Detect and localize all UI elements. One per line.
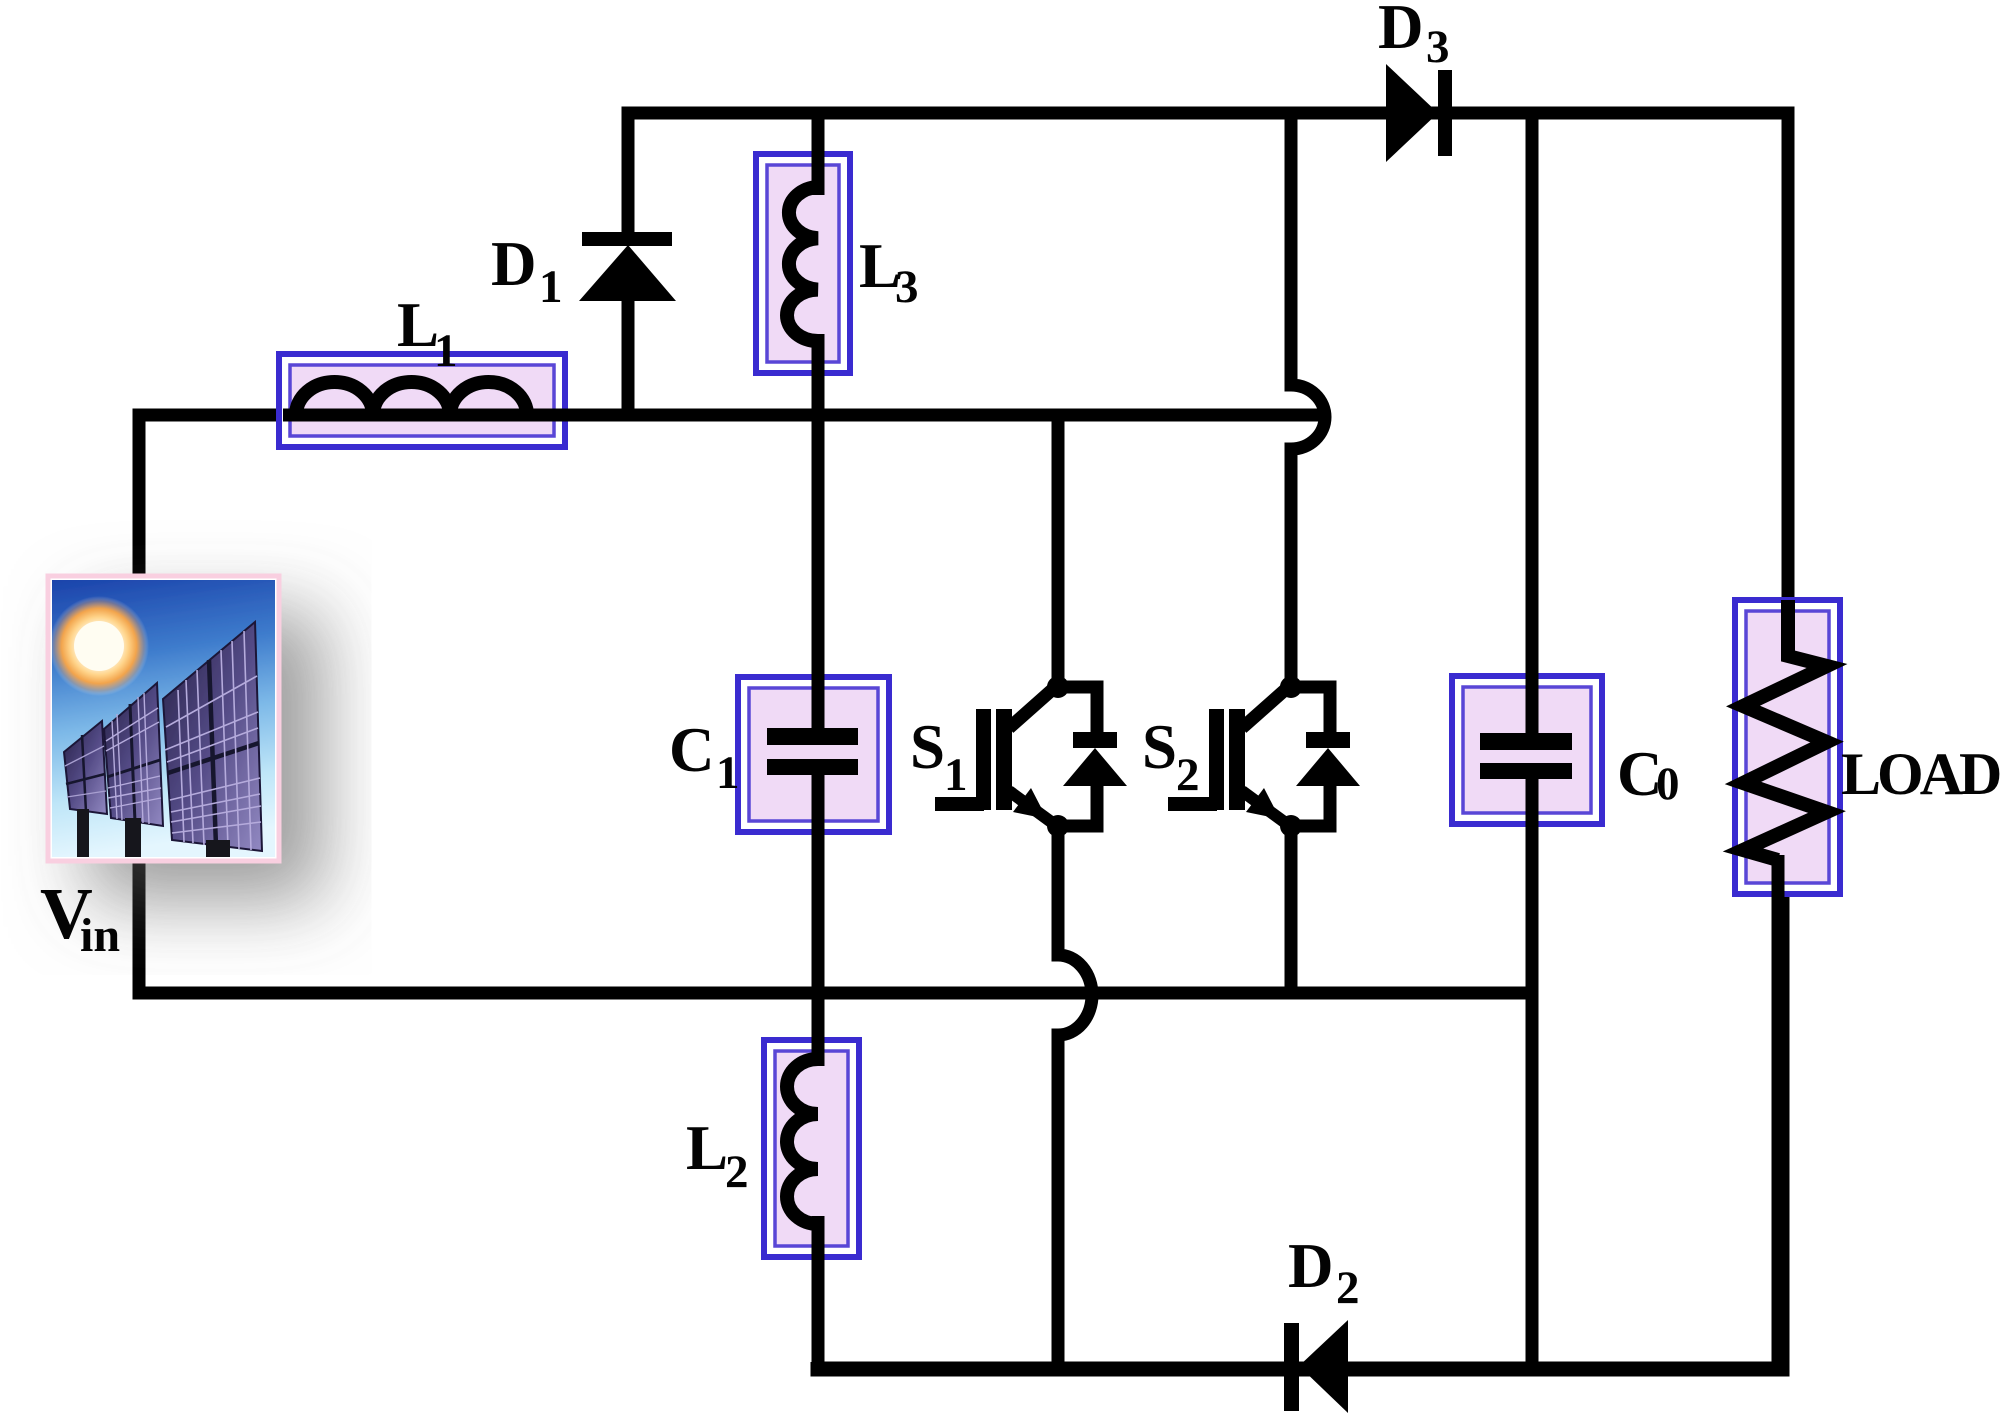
svg-text:D: D [1288, 1231, 1334, 1301]
diode D1 [579, 232, 676, 301]
wire L1 rail node [139, 409, 1324, 422]
svg-text:C: C [669, 715, 715, 785]
svg-text:L: L [397, 290, 439, 360]
diode D2 [1284, 1320, 1348, 1413]
transistor S2 (IGBT) [1168, 676, 1360, 837]
wire center column through L3 C1 L2 [812, 113, 825, 1369]
label L3 [859, 231, 919, 313]
svg-text:1: 1 [716, 747, 740, 799]
resistor LOAD [1735, 600, 1840, 1369]
svg-text:2: 2 [1336, 1262, 1360, 1314]
wire S1 collector [1052, 415, 1065, 686]
svg-text:in: in [80, 909, 120, 962]
wire Vin left column [133, 409, 146, 994]
label L1 [397, 290, 458, 377]
svg-text:1: 1 [434, 325, 458, 377]
wire top rail [629, 107, 1788, 120]
wire top-left corner down to D1 [622, 107, 635, 241]
diode D3 [1386, 64, 1452, 162]
label S2 [1142, 712, 1200, 801]
wire C0 column lower [1526, 779, 1539, 1369]
label D2 [1288, 1231, 1360, 1314]
label L2 [686, 1113, 749, 1198]
label D3 [1378, 0, 1450, 73]
wire S2 collector upper with hop over L1 rail [1291, 113, 1325, 686]
panel right [163, 622, 262, 851]
svg-text:L: L [686, 1113, 728, 1183]
svg-text:2: 2 [1176, 749, 1200, 801]
wire D1 anode down to L1 rail [622, 295, 635, 415]
label C1 [669, 715, 740, 799]
transistor S1 (IGBT) [935, 676, 1127, 837]
label S1 [910, 712, 968, 801]
svg-text:3: 3 [895, 261, 919, 313]
svg-text:D: D [491, 229, 537, 299]
inductor L2 [764, 1036, 859, 1262]
label C0 [1617, 739, 1680, 810]
wire right column top rail to LOAD [1782, 107, 1795, 661]
label LOAD [1841, 741, 2000, 807]
panel mid [104, 683, 163, 826]
wire mid rail [139, 987, 1532, 994]
inductor L3 [756, 150, 850, 380]
svg-text:2: 2 [725, 1146, 749, 1198]
wire S2 emitter to mid rail [1285, 826, 1298, 993]
inductor L1 [279, 354, 1324, 447]
svg-text:1: 1 [944, 749, 968, 801]
svg-text:0: 0 [1656, 758, 1680, 810]
label D1 [491, 229, 563, 313]
svg-text:LOAD: LOAD [1841, 741, 2000, 807]
svg-text:D: D [1378, 0, 1424, 62]
svg-text:1: 1 [539, 261, 563, 313]
label Vin [40, 873, 120, 962]
solar panel photo Vin source [48, 576, 279, 861]
wire bottom rail [818, 860, 1782, 1369]
capacitor C1 [738, 660, 889, 850]
wire S1 emitter with hop over mid rail [1058, 826, 1092, 1369]
wire C0 column upper [1526, 113, 1539, 733]
panel left [64, 721, 107, 814]
svg-text:S: S [910, 712, 945, 782]
svg-text:3: 3 [1426, 21, 1450, 73]
svg-text:S: S [1142, 712, 1177, 782]
capacitor C0 [1452, 660, 1602, 845]
